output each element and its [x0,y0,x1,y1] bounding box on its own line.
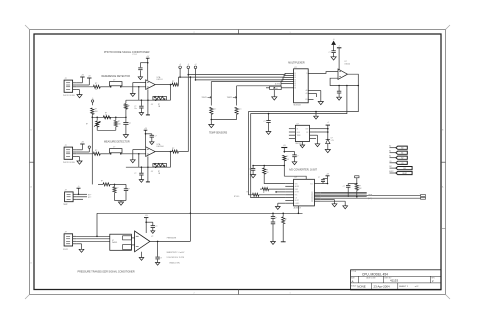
IC U4 pins [289,128,296,130]
net label box on mux S8 [270,86,282,89]
ground A/D right 2 [321,200,345,202]
svg-text:LM124: LM124 [345,63,351,65]
ground J2 [77,161,82,164]
power in-amp [145,218,147,233]
long vertical stage2 net [187,75,189,152]
svg-text:41153: 41153 [390,279,398,283]
wire R7 to C4 [100,153,110,155]
svg-text:R?: R? [105,113,107,115]
capacitor C19 stub [338,86,340,92]
off-page connector bus right [421,195,426,197]
capacitor C3 mid [125,117,127,122]
zener D1 [326,139,330,143]
wire J2 pin1 to +V [76,149,82,151]
border tick left [30,161,35,163]
svg-text:REFERENCE DETECTOR: REFERENCE DETECTOR [102,75,131,78]
svg-text:RT?: RT? [213,109,216,111]
corner centering mark bottom-right [446,295,451,300]
svg-text:A/D CONVERTER, 16 BIT: A/D CONVERTER, 16 BIT [289,169,318,172]
in-amp output wire [150,240,191,242]
svg-text:C? 0.1: C? 0.1 [132,54,137,56]
ground C9 [266,132,271,135]
wire ref rail [253,165,284,167]
ground A/D left [278,202,286,204]
wire rail branch cap [284,151,294,153]
svg-text:5.1V: 5.1V [331,140,334,142]
wire AD pin4 [276,191,285,193]
wire R1 to C1 node [100,86,110,88]
feedback riser U1B [170,152,172,168]
capacitor C17 [157,241,159,256]
svg-text:C?: C? [329,52,331,54]
IC U5 pins [285,183,293,185]
resistor R16 rail [283,155,286,161]
svg-text:S1: S1 [294,73,296,75]
off-page connector A1 [390,152,396,154]
svg-text:10K: 10K [359,188,362,190]
capacitor C2 [140,62,147,64]
ground mux address [320,98,322,102]
ground C15 [271,242,276,245]
wire U1A plus gnd [133,82,146,84]
svg-text:+5: +5 [338,45,340,47]
ground J4 [79,249,84,252]
resistor R4 [103,116,111,119]
svg-text:S8: S8 [294,88,296,90]
wire A/D vcc [321,183,328,185]
test point TP2 [187,66,190,69]
wire mid rail [92,116,126,118]
svg-text:PRESSURE TRANSDUCER SIGNAL CON: PRESSURE TRANSDUCER SIGNAL CONDITIONER [78,271,135,274]
power circle tap R3 [91,100,93,102]
svg-text:+5: +5 [78,186,80,188]
svg-text:XDCR: XDCR [63,249,69,251]
svg-text:ADS8519: ADS8519 [294,207,301,210]
capacitor C16 [146,221,153,223]
in-amp input block [110,234,132,250]
svg-text:+5: +5 [333,39,335,41]
wire J2 pin2 to -V [76,151,89,153]
ground U4 pin3 [316,134,318,136]
border tick right 2 [441,228,446,230]
svg-text:U?: U? [294,67,296,69]
resistor R13 [263,166,265,168]
svg-text:U?: U? [112,240,114,242]
ground below in-amp [141,252,143,258]
sheet border outer frame [30,30,446,295]
resistor R15 [282,213,284,216]
svg-text:TEMP2: TEMP2 [227,97,232,99]
resistor R6 vertical [115,117,117,120]
svg-text:PHOTO DIODE: PHOTO DIODE [63,95,76,97]
svg-text:C?: C? [318,177,320,179]
connector J1 [64,80,73,92]
svg-text:C?: C? [129,123,131,125]
svg-text:-5V: -5V [151,171,153,173]
power bar VIN rail [281,147,287,149]
mux S6 stub [281,83,294,85]
resistor R10 vertical [114,184,116,186]
power flag A/D vcc [326,175,330,177]
wire route pair A [249,86,359,195]
wire U1B plus gnd [133,149,146,151]
resistor R7 [93,152,100,155]
svg-text:R?: R? [86,124,88,126]
resistor R3 vertical [91,108,94,114]
svg-text:+5: +5 [327,122,329,124]
svg-text:C?: C? [155,136,157,138]
svg-text:VIN: VIN [295,183,298,185]
power flag P1 [80,76,84,78]
svg-text:23-Apr-2004: 23-Apr-2004 [374,284,390,288]
svg-text:CS: CS [389,161,391,163]
wire lower rail [115,200,127,202]
svg-text:A: A [352,279,354,283]
svg-text:D?: D? [331,138,333,140]
svg-text:TEMP SENSORS: TEMP SENSORS [209,133,228,135]
thermistor RT1 [210,82,212,106]
svg-text:C?: C? [128,189,130,191]
ground C20 [139,113,143,116]
wire U1B output [155,151,172,153]
ground U1B plus [130,160,135,163]
svg-text:EN: EN [305,99,307,101]
op-amp U1B [146,147,156,157]
capacitor C14 [252,166,254,169]
svg-text:S6: S6 [294,83,296,85]
wire stage2 net to mux S1 [188,73,293,74]
wire U4 out node [316,128,328,130]
ground C6 [139,180,143,183]
svg-text:S4: S4 [294,79,296,81]
connector J2 [64,147,73,159]
svg-text:CPU, MODEL 454: CPU, MODEL 454 [362,273,388,277]
resistor R8 output [172,150,179,153]
mux right pin EN [308,99,313,101]
svg-text:TEMP1: TEMP1 [201,97,206,99]
power bar U3 [337,47,342,49]
svg-text:100: 100 [266,172,269,174]
capacitor C6 comp [140,167,142,173]
svg-text:R?: R? [101,181,103,183]
ground U1A plus [130,94,135,97]
svg-text:REF102: REF102 [295,143,301,145]
wire J3 b [77,196,87,198]
capacitor C4 box [110,149,123,153]
svg-text:SHEET 1: SHEET 1 [399,286,409,288]
border tick bottom [238,290,240,295]
thermistor RT2 [236,86,238,106]
wire J4 top to x97 [96,236,98,238]
wire J2 pin4 gnd [76,156,79,158]
ground lower network [120,201,122,203]
resistor R2 output [172,83,179,86]
svg-text:R?: R? [128,106,130,108]
feedback resistor box U1B [153,163,167,167]
power box P5 [355,176,359,178]
mux right pin A1 [308,93,316,95]
svg-text:S3: S3 [294,77,296,79]
ground C14 [251,175,256,178]
svg-text:PHOTO DIODE SIGNAL CONDITIONER: PHOTO DIODE SIGNAL CONDITIONER [104,51,150,54]
svg-text:AGND: AGND [273,87,279,90]
svg-text:C?: C? [263,121,265,123]
power arrow +5V [332,41,336,44]
feedback riser U1A [170,85,172,101]
capacitor C5 [146,133,152,135]
svg-text:C?: C? [297,156,299,158]
terminal bar R15 [281,241,286,243]
feedback resistor box U1A [153,96,167,100]
IC U4 body [295,125,309,141]
sheet border inner frame [34,34,441,290]
wire U1A output [155,84,172,86]
svg-text:CS: CS [401,163,403,165]
feedback vertical U1A [138,87,140,100]
potentiometer R5 [96,117,98,120]
wire to op-amp U1B minus [121,153,146,155]
feedback rail U1A [126,99,171,101]
svg-text:D1: D1 [311,201,313,203]
in-amp A1 [135,231,150,252]
off-page connector R/C [390,167,396,169]
svg-text:S2: S2 [294,75,296,77]
capacitor C7 [125,184,127,188]
svg-text:R?: R? [286,156,288,158]
svg-text:R?: R? [359,186,361,188]
ground J1 [77,95,82,98]
svg-text:1: 1 [289,292,290,294]
svg-text:R?: R? [263,192,265,194]
svg-text:R?: R? [266,169,268,171]
corner centering mark bottom-left [25,295,30,300]
svg-text:R?: R? [158,171,160,173]
resistor R1 [93,85,100,88]
connector J4 [64,234,73,246]
capacitor C13 [348,183,357,185]
svg-text:R?: R? [158,104,160,106]
svg-text:10n: 10n [134,108,137,110]
title block frame [351,270,441,290]
svg-text:MEASURE DETECTOR: MEASURE DETECTOR [104,140,130,143]
svg-text:R? 49.9: R? 49.9 [234,196,239,198]
svg-text:2: 2 [193,32,194,34]
wire mux D to U3 plus [308,72,338,74]
svg-text:LM124: LM124 [157,79,163,81]
svg-text:C?: C? [134,173,136,175]
wires J4 to block [76,235,110,237]
wire TP3 net to mux S3 [196,77,294,80]
svg-text:BYTE: BYTE [295,192,299,194]
op-amp U1A [146,80,156,90]
svg-text:-5: -5 [188,64,190,66]
ground C19 [337,97,342,100]
mux right pin A0 [308,90,321,92]
ground U4 [301,142,303,146]
capacitor C1 box [110,82,123,86]
svg-text:-5V: -5V [151,104,153,106]
off-page connector A2 [390,157,396,159]
ground C5 [150,142,154,145]
wire J1 pin2 to -V flag [76,84,89,86]
svg-text:U?: U? [151,236,153,238]
feedback loop U3 [330,74,358,85]
wire route pair B [251,86,347,198]
capacitor C9 chain [268,114,270,121]
A/D data bus lines [321,191,367,193]
ground C8 [331,57,336,60]
corner centering mark top-right [446,25,451,30]
ground A/D right 1 [321,199,335,201]
power tap U4 out [326,124,330,126]
resistor R9 [103,183,110,186]
ground C18 [292,162,297,165]
svg-text:-5: -5 [92,98,93,100]
test point TP3 [194,66,197,69]
svg-text:R?: R? [118,121,120,123]
svg-text:[0..7]: [0..7] [368,198,372,200]
wire J1 signal [76,86,93,88]
feedback rail U1B [126,166,171,168]
ground mid network [123,135,128,138]
ground on rail x316 [315,112,317,117]
power stem U1A [147,59,149,81]
svg-text:7K: 7K [105,115,107,117]
svg-text:PHOTO DIODE: PHOTO DIODE [63,162,76,164]
capacitor C15 [272,213,274,216]
svg-text:C?: C? [155,226,157,228]
svg-text:C?: C? [134,106,136,108]
svg-text:C?: C? [160,258,162,260]
svg-text:IN: IN [297,129,299,131]
wire J3 a [77,193,87,195]
ground D1 [325,150,330,153]
wire in-amp net rail [97,212,303,214]
svg-text:C?: C? [275,217,277,219]
ground mux S8 [273,90,275,97]
off-page connector A0 [390,147,396,149]
svg-text:R?: R? [172,148,174,150]
border tick right [441,161,446,163]
svg-text:CS: CS [295,197,297,199]
wire R13 to AD pin1 [264,174,285,183]
wire to op-amp U1A minus [121,86,146,88]
wire J2 signal [76,153,93,155]
svg-text:RT?: RT? [88,197,91,199]
svg-text:U?: U? [295,177,297,179]
svg-text:R?: R? [247,191,249,193]
resistor R14 h [262,188,269,191]
power flag P3 [80,143,84,145]
svg-text:BW(3) 1 KHz: BW(3) 1 KHz [170,262,181,264]
svg-text:OUT: OUT [305,129,308,131]
svg-text:NONE: NONE [357,284,365,288]
svg-text:S7: S7 [294,86,296,88]
power circle P4 [88,146,90,148]
corner centering mark top-left [25,25,30,30]
svg-text:+5: +5 [179,64,181,66]
wire temp bottom rail [211,119,236,121]
svg-text:LM2904: LM2904 [157,146,164,148]
wire stage2 out to riser [178,151,188,153]
test point TP1 [179,66,182,69]
svg-text:C?: C? [113,147,115,149]
negative supply stub U1B [147,156,149,181]
off-page connector CS [390,162,396,164]
svg-text:20K: 20K [118,124,121,126]
connector J3 [65,192,74,202]
power flag J3 [78,189,80,195]
long vertical pressure net [189,77,191,241]
wire rail to AD top pin [284,176,306,179]
wire mid bottom rail [97,129,116,131]
wire J1 pin4 to ground [76,89,79,91]
IC U5 body [294,179,315,206]
IC U2 multiplexer body [294,69,309,103]
svg-text:R?: R? [95,83,97,85]
svg-text:C?: C? [248,169,250,171]
wire stage1 net to mux S2 [179,75,294,84]
wire RT2 to mux S5 [237,82,294,86]
wire J1 pin1 to +V flag [76,82,82,84]
svg-text:SENSITIVITY: 4 mV/V: SENSITIVITY: 4 mV/V [167,252,186,254]
svg-text:REF: REF [295,189,298,191]
svg-text:10K: 10K [286,159,289,161]
svg-text:1: 1 [289,32,290,34]
link resistor R6b [125,100,127,103]
capacitor C20 comp [140,100,142,106]
power stem U1B [145,130,147,146]
svg-text:MULTIPLEXER: MULTIPLEXER [288,62,305,65]
svg-text:MUX508: MUX508 [294,105,301,107]
ground temp sensors [210,120,212,125]
capacitor C18 [292,154,296,156]
long vertical to stage2 network [91,117,93,184]
svg-text:X DUCER F.S. 15 PSI: X DUCER F.S. 15 PSI [167,257,185,259]
svg-text:R?: R? [95,150,97,152]
capacitor C8 [331,50,335,52]
power flag P2 [87,77,91,79]
svg-text:2: 2 [193,292,194,294]
ground C2 [138,77,142,80]
resistor R12 [355,184,358,190]
svg-text:U?: U? [296,123,298,125]
wire AD bottom pin [297,206,299,213]
wire pair A to AD [259,194,285,196]
svg-text:R?: R? [172,81,174,83]
svg-text:C?: C? [113,80,115,82]
resistor pair A [252,193,259,196]
capacitor C12 [323,178,328,180]
wire J3 c [77,198,83,200]
svg-text:RT?: RT? [238,109,241,111]
off-page connector BUSY [390,172,396,174]
svg-text:S5: S5 [294,81,296,83]
feedback vertical U1B [138,154,140,167]
wire RT1 to mux S4 [211,80,293,82]
svg-text:BUSY: BUSY [295,200,299,202]
op-amp U3 buffer [338,69,348,79]
border tick top [238,30,240,35]
vertical x97 to J4 [96,213,98,236]
svg-text:PRESSURE: PRESSURE [167,238,177,240]
svg-text:C?: C? [343,186,345,188]
svg-text:R?: R? [285,219,287,221]
svg-text:R?: R? [95,109,97,111]
svg-text:R?: R? [116,188,118,190]
negative supply stub U1A [147,89,149,114]
